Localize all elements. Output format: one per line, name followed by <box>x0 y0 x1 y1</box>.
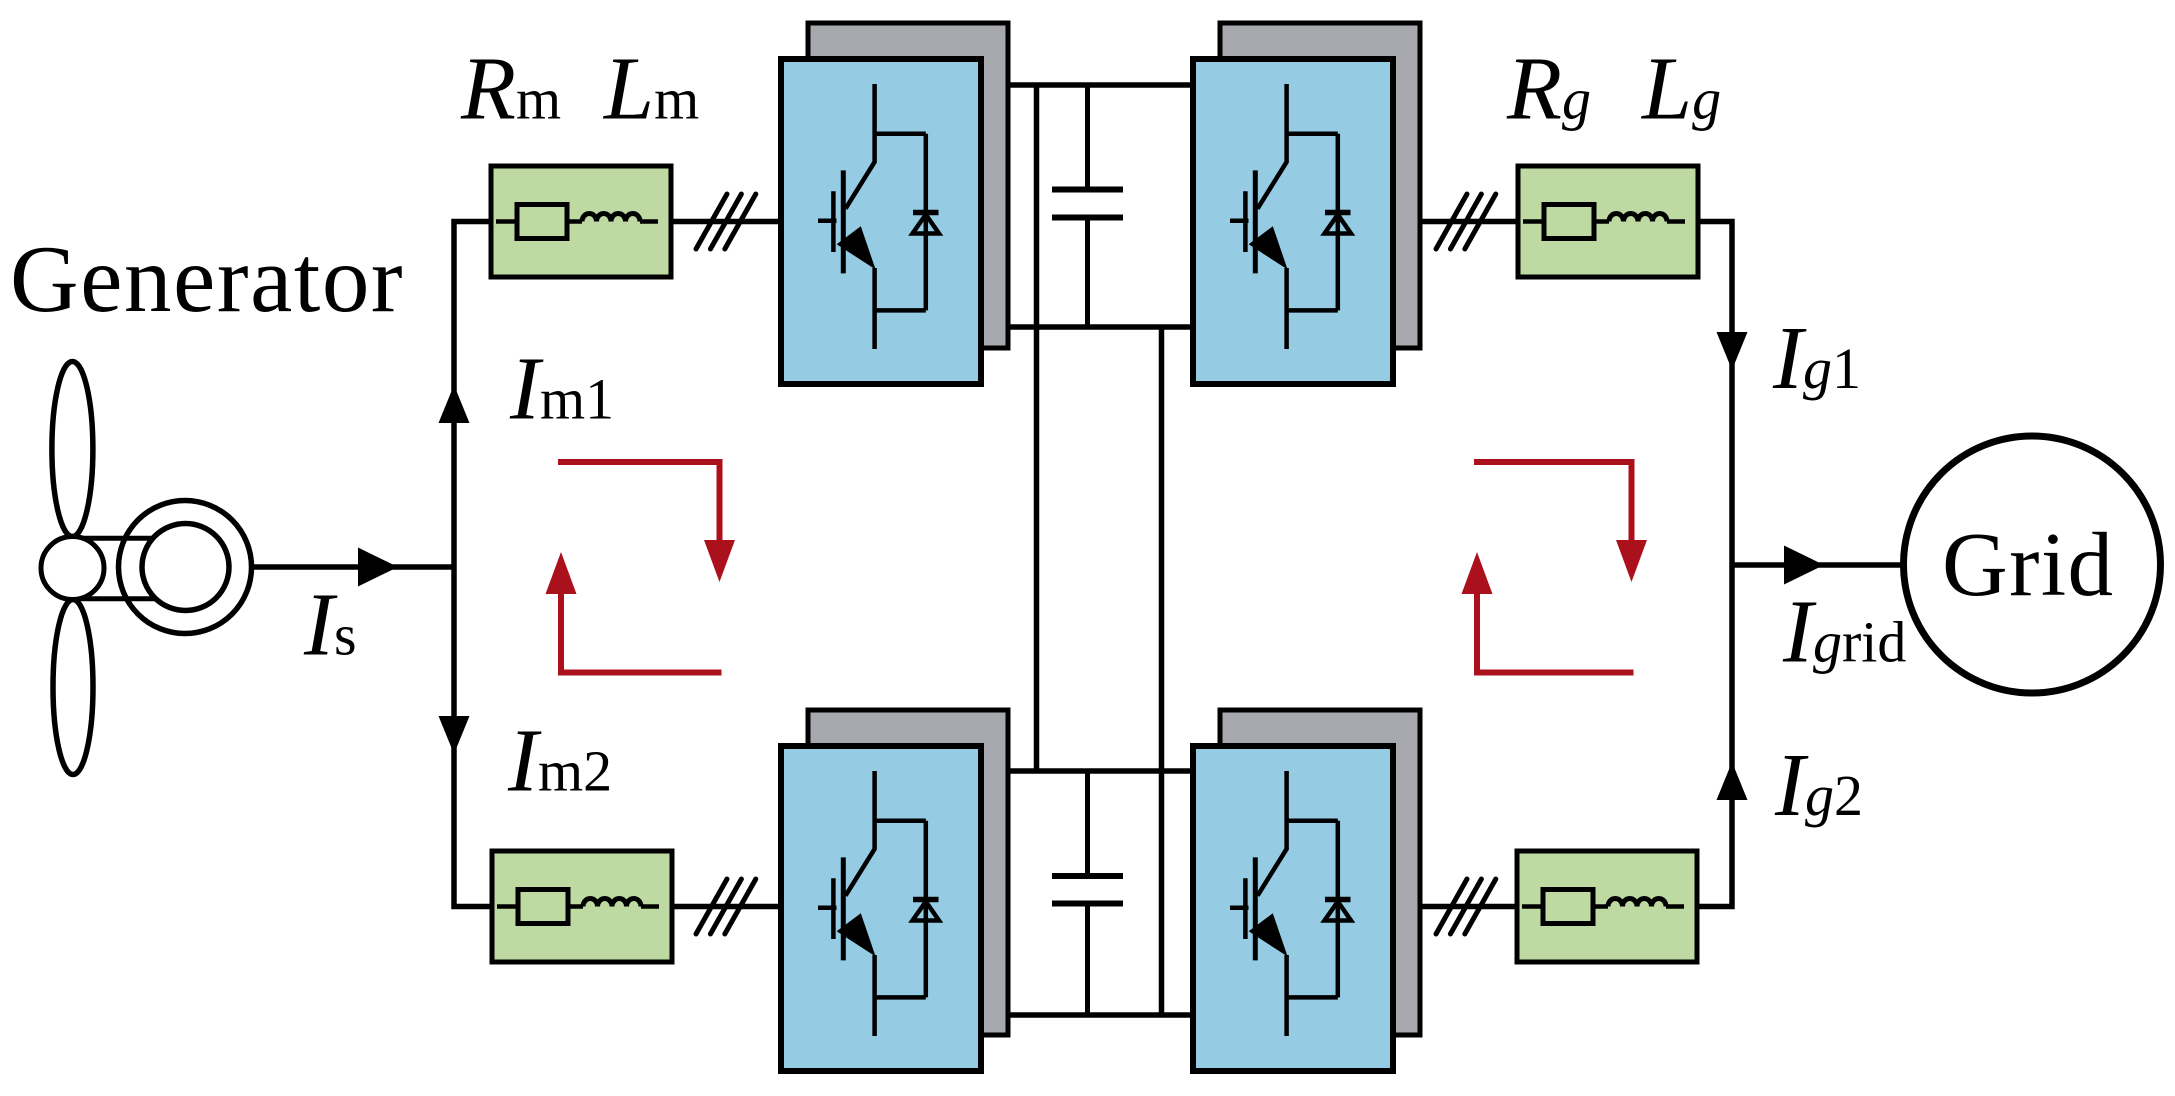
circulating-current loop machine side: down arrow <box>704 540 735 582</box>
svg-text:Igrid: Igrid <box>1782 583 1906 682</box>
IGBT collector lead <box>1258 84 1287 209</box>
lead wire <box>567 219 582 224</box>
converter 4 (grid-side lower): module body <box>1193 746 1393 1071</box>
capacitor upper DC link: top lead <box>1085 85 1090 190</box>
IGBT emitter arrow <box>1249 913 1288 956</box>
diode triangle <box>913 215 940 234</box>
lead wire <box>497 904 519 909</box>
collector-diode link <box>1287 819 1338 824</box>
svg-text:Lg: Lg <box>1640 40 1721 139</box>
current arrow Igrid (right) <box>1784 546 1824 585</box>
wire DC link tie (-) <box>1159 327 1165 1015</box>
circulating-current loop machine side: bottom segment <box>561 594 722 673</box>
diode triangle <box>1325 215 1352 234</box>
svg-text:Lm: Lm <box>602 40 699 139</box>
svg-text:Grid: Grid <box>1942 514 2114 615</box>
IGBT body bar <box>841 170 846 273</box>
wire DC bus lower - rail <box>1008 1012 1193 1018</box>
converter 2 (grid-side upper): gray shadow plate <box>1220 23 1420 348</box>
lead wire <box>1667 219 1685 224</box>
converter 3 (machine-side lower): module body <box>781 746 981 1071</box>
lead wire <box>1593 904 1608 909</box>
diode cathode bar <box>913 897 939 903</box>
converter 3 (machine-side lower): gray shadow plate <box>808 710 1008 1035</box>
wire DC link tie (+) <box>1034 85 1040 771</box>
IGBT gate bar <box>1243 191 1248 252</box>
converter 4 (grid-side lower): gray shadow plate <box>1220 710 1420 1035</box>
inductor Lg <box>1609 213 1667 221</box>
wire to grid (Igrid) <box>1732 562 1905 568</box>
IGBT body bar <box>841 857 846 960</box>
svg-text:Ig2: Ig2 <box>1774 736 1863 835</box>
freewheeling diode lead <box>1336 821 1341 998</box>
freewheeling diode lead <box>924 134 929 311</box>
IGBT emitter lead <box>1284 955 1289 1036</box>
IGBT gate bar <box>831 191 836 252</box>
current arrow Ig2 (up) <box>1717 762 1748 800</box>
IGBT gate lead <box>818 219 837 224</box>
diode cathode bar <box>913 210 939 216</box>
circulating-current loop grid side: down arrow <box>1616 540 1647 582</box>
IGBT emitter arrow <box>837 226 876 269</box>
circulating-current loop grid side: top segment <box>1474 462 1632 540</box>
lead wire <box>496 219 518 224</box>
wire DC bus upper - rail <box>1008 324 1193 330</box>
lead wire <box>641 904 659 909</box>
wire DC bus upper + rail <box>1008 82 1193 88</box>
svg-text:Is: Is <box>303 576 357 675</box>
IGBT emitter lead <box>1284 268 1289 349</box>
RL filter box (Rg,Lg) <box>1517 851 1697 962</box>
resistor Rg <box>1543 890 1593 924</box>
emitter-diode link <box>875 995 926 1000</box>
IGBT body bar <box>1253 857 1258 960</box>
inductor Lm <box>583 898 641 906</box>
diode triangle <box>1325 902 1352 921</box>
wire machine-side branch: Im1 up, Im2 down <box>454 222 492 907</box>
emitter-diode link <box>875 308 926 313</box>
wire converter 4 to grid filter 2 <box>1421 904 1517 910</box>
IGBT gate lead <box>818 906 837 911</box>
svg-text:Im1: Im1 <box>509 340 614 439</box>
converter 2 (grid-side upper): module body <box>1193 59 1393 384</box>
svg-text:Generator: Generator <box>10 226 404 332</box>
wire grid-side branch: Ig1 down, Ig2 up <box>1697 222 1732 907</box>
three-phase slash marks grid side upper <box>1436 194 1496 249</box>
RL filter box (Rg,Lg) <box>1518 166 1698 277</box>
current arrow Ig1 (down) <box>1717 332 1748 370</box>
IGBT collector lead <box>846 84 875 209</box>
circulating-current loop grid side: up arrow <box>1462 552 1493 594</box>
lead wire <box>640 219 658 224</box>
IGBT emitter lead <box>872 268 877 349</box>
lead wire <box>1666 904 1684 909</box>
capacitor upper DC link: bottom lead <box>1085 218 1090 328</box>
IGBT gate bar <box>831 878 836 939</box>
converter 1 (machine-side upper): module body <box>781 59 981 384</box>
svg-text:Im2: Im2 <box>507 712 612 811</box>
inductor Lm <box>582 213 640 221</box>
turbine hub <box>41 537 104 600</box>
capacitor lower DC link: top lead <box>1085 771 1090 876</box>
resistor Rm <box>518 890 568 924</box>
three-phase slash marks machine side upper <box>696 194 756 249</box>
diode cathode bar <box>1325 210 1351 216</box>
circulating-current loop machine side: up arrow <box>546 552 577 594</box>
capacitor upper DC link: plates <box>1052 190 1123 218</box>
IGBT gate lead <box>1230 906 1249 911</box>
RL filter box (Rm,Lm) <box>492 851 672 962</box>
lead wire <box>568 904 583 909</box>
freewheeling diode lead <box>924 821 929 998</box>
inductor Lg <box>1608 898 1666 906</box>
three-phase slash marks grid side lower <box>1436 879 1496 934</box>
wire converter 2 to grid filter <box>1421 219 1518 225</box>
circulating-current loop grid side: bottom segment <box>1477 594 1634 673</box>
IGBT collector lead <box>1258 771 1287 896</box>
grid circle <box>1904 436 2161 693</box>
svg-text:Ig1: Ig1 <box>1772 309 1861 408</box>
IGBT gate lead <box>1230 219 1249 224</box>
IGBT emitter arrow <box>1249 226 1288 269</box>
wind turbine blade (lower) <box>53 600 93 775</box>
svg-text:Rm: Rm <box>460 40 561 139</box>
generator rotor (inner circle) <box>142 524 229 611</box>
turbine shaft <box>72 538 170 599</box>
circulating-current loop machine side: top segment <box>558 462 720 540</box>
diode triangle <box>913 902 940 921</box>
collector-diode link <box>875 819 926 824</box>
capacitor lower DC link: plates <box>1052 876 1123 904</box>
wire generator output (Is) <box>251 564 454 570</box>
svg-text:Rg: Rg <box>1506 40 1591 139</box>
converter 1 (machine-side upper): gray shadow plate <box>808 23 1008 348</box>
IGBT gate bar <box>1243 878 1248 939</box>
wind turbine blade (upper) <box>52 362 93 537</box>
collector-diode link <box>875 132 926 137</box>
current arrow Im1 (up) <box>439 385 470 423</box>
generator stator (outer circle) <box>119 501 252 634</box>
wire machine filter to converter 1 <box>671 219 781 225</box>
resistor Rm <box>517 205 567 239</box>
freewheeling diode lead <box>1336 134 1341 311</box>
resistor Rg <box>1544 205 1594 239</box>
emitter-diode link <box>1287 308 1338 313</box>
capacitor lower DC link: bottom lead <box>1085 904 1090 1016</box>
current arrow Is (right) <box>358 548 398 587</box>
lead wire <box>1523 219 1545 224</box>
IGBT body bar <box>1253 170 1258 273</box>
lead wire <box>1594 219 1609 224</box>
RL filter box (Rm,Lm) <box>491 166 671 277</box>
three-phase slash marks machine side lower <box>696 879 756 934</box>
IGBT emitter arrow <box>837 913 876 956</box>
collector-diode link <box>1287 132 1338 137</box>
lead wire <box>1522 904 1544 909</box>
diode cathode bar <box>1325 897 1351 903</box>
wire DC bus lower + rail <box>1008 768 1193 774</box>
IGBT emitter lead <box>872 955 877 1036</box>
IGBT collector lead <box>846 771 875 896</box>
wire machine filter 2 to converter 3 <box>672 904 781 910</box>
emitter-diode link <box>1287 995 1338 1000</box>
current arrow Im2 (down) <box>439 716 470 754</box>
